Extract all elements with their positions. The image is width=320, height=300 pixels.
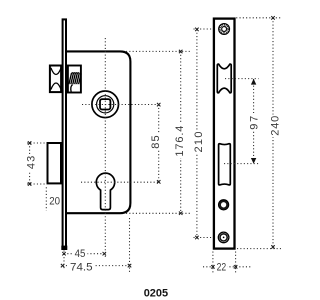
- deadbolt (side view): [48, 143, 62, 183]
- extension deadbolt bottom: [27, 183, 47, 185]
- label 74.5: [69, 261, 95, 272]
- spindle square hole: [100, 99, 110, 109]
- follower hub outer circle: [92, 91, 119, 118]
- dimension line 45: [64, 253, 104, 255]
- svg-text:210: 210: [193, 132, 205, 153]
- extension plate top: [236, 17, 281, 19]
- arrow cross 210 bottom: [195, 236, 199, 240]
- label 45: [73, 248, 88, 259]
- label 176.4: [174, 124, 184, 158]
- latch bolt head (side view): [50, 66, 61, 93]
- follower hub inner circle: [97, 96, 114, 113]
- label 22: [216, 261, 228, 272]
- dimension line 22: [203, 266, 252, 268]
- arrow cross 43 bottom: [28, 182, 32, 186]
- spring coil top loops: [72, 72, 80, 75]
- dimension line 240: [272, 18, 274, 249]
- dimension line 85: [158, 105, 160, 182]
- deadbolt cutout (front view): [219, 144, 231, 185]
- lock body (side view): [66, 51, 130, 213]
- label 85: [151, 134, 161, 150]
- bottom screw hole: [218, 232, 229, 243]
- arrow cross 85 bottom: [157, 180, 161, 184]
- latch cutout (front view): [217, 64, 231, 93]
- dimension line 74.5: [63, 265, 130, 267]
- extension plate left vertical: [212, 252, 214, 274]
- extension faceplate bottom vertical: [63, 251, 65, 271]
- arrow cross 22 left: [211, 265, 215, 269]
- arrow up 97: [251, 79, 256, 85]
- svg-text:85: 85: [150, 135, 162, 148]
- centerline hub horizontal: [82, 104, 160, 106]
- extension body right vertical: [129, 218, 131, 274]
- arrow cross 240 top: [271, 16, 275, 20]
- label 97: [249, 113, 259, 131]
- centerline hub/cylinder vertical: [104, 38, 106, 259]
- middle screw hole: [219, 200, 229, 210]
- svg-text:43: 43: [26, 156, 38, 169]
- arrow cross 176.4 bottom: [179, 211, 183, 215]
- forend plate (front view): [214, 19, 235, 249]
- extension deadbolt throw vertical: [45, 187, 47, 210]
- extension bottom screw: [194, 237, 214, 239]
- dimension line 210: [196, 29, 198, 237]
- svg-text:240: 240: [269, 116, 281, 136]
- label 210: [194, 131, 204, 155]
- latch face arc top: [51, 68, 61, 75]
- arrow cross 210 top: [195, 28, 199, 32]
- extension body top: [126, 50, 190, 52]
- svg-text:45: 45: [75, 248, 86, 260]
- svg-text:97: 97: [249, 116, 261, 130]
- label 43: [27, 155, 37, 172]
- dimension line 176.4: [180, 52, 182, 214]
- spring coil: [69, 73, 81, 84]
- centerline cylinder horizontal: [81, 181, 160, 183]
- faceplate (side view): [63, 19, 66, 247]
- spring housing: [68, 66, 81, 93]
- arrow cross 43 top: [28, 141, 32, 145]
- spring end hook: [71, 85, 73, 93]
- arrow cross 45 left: [62, 252, 66, 256]
- centerline deadbolt horizontal (front view): [224, 163, 259, 165]
- svg-text:74.5: 74.5: [70, 261, 93, 273]
- arrow cross 74.5 right: [128, 264, 132, 268]
- arrow cross 85 top: [157, 103, 161, 107]
- dimension line 43: [29, 143, 31, 184]
- svg-text:22: 22: [217, 261, 227, 273]
- extension deadbolt top: [27, 142, 47, 144]
- extension plate right vertical: [235, 252, 237, 274]
- arrow cross 22 right: [234, 265, 238, 269]
- arrow down 97: [251, 158, 256, 164]
- euro cylinder hole: [96, 173, 114, 209]
- svg-text:0205: 0205: [144, 288, 168, 300]
- faceplate bottom cap: [61, 246, 67, 250]
- arrow cross 74.5 left: [61, 264, 65, 268]
- svg-text:176.4: 176.4: [174, 126, 186, 157]
- latch face arc bottom: [51, 83, 61, 90]
- svg-text:20: 20: [49, 195, 60, 207]
- arrow cross 176.4 top: [179, 50, 183, 54]
- extension plate bottom: [237, 248, 283, 250]
- dimension line 97: [253, 79, 255, 164]
- arrow cross 45 right: [103, 252, 107, 256]
- extension top screw: [194, 28, 214, 30]
- top screw hole knurled: [219, 24, 230, 35]
- label 240: [270, 115, 280, 138]
- centerline latch horizontal (front view): [225, 78, 259, 80]
- arrow cross 240 bottom: [271, 245, 275, 249]
- extension body bottom: [126, 212, 190, 214]
